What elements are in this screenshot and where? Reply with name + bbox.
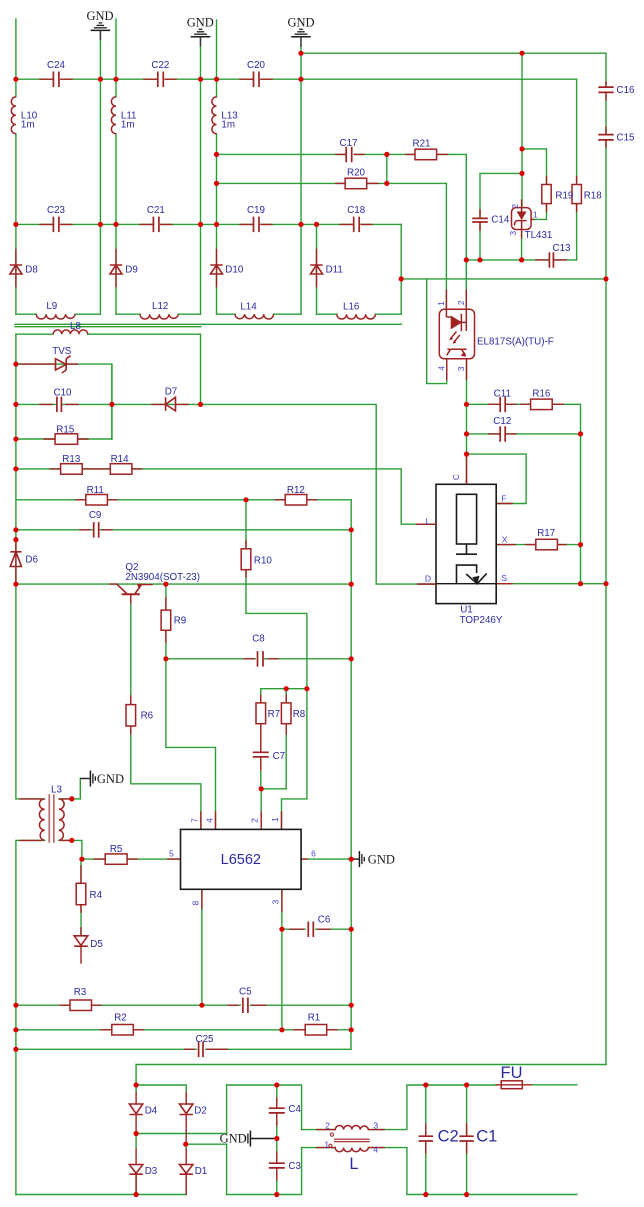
resistor R4	[76, 883, 86, 904]
capacitor C22	[158, 72, 164, 88]
svg-text:TVS: TVS	[52, 346, 72, 357]
diode D4	[129, 1104, 142, 1115]
wire R20 line	[217, 182, 447, 184]
leads C12	[489, 433, 516, 435]
TL431	[512, 208, 532, 230]
svg-text:D: D	[425, 574, 431, 584]
diode D6	[10, 552, 21, 567]
wire bottom rail left	[16, 1194, 186, 1196]
svg-text:4: 4	[436, 366, 446, 371]
wire F branch	[467, 454, 527, 503]
wire C11 line	[467, 403, 581, 405]
wire base line y584	[16, 583, 351, 585]
leads D11	[316, 249, 318, 286]
capacitor C11	[500, 397, 505, 413]
svg-text:C5: C5	[239, 986, 252, 997]
wire L9 rail	[16, 313, 101, 315]
svg-text:GND: GND	[187, 15, 214, 29]
svg-text:C20: C20	[247, 60, 266, 71]
svg-text:D5: D5	[90, 939, 103, 950]
node dots mid	[13, 362, 18, 367]
opto EL817	[439, 309, 474, 359]
wire Q2 base to R6	[131, 595, 201, 830]
red stubs over U1 edge reconnect	[417, 480, 467, 584]
leads C20	[240, 78, 272, 80]
ground GND3 top	[291, 29, 311, 46]
svg-text:C8: C8	[252, 633, 265, 644]
capacitor gaps (white)	[54, 79, 606, 1167]
svg-text:L14: L14	[240, 301, 257, 312]
resistor R15	[55, 434, 78, 445]
leads opto pins	[446, 290, 466, 380]
wire sec stub A	[15, 323, 402, 325]
svg-text:L: L	[349, 1155, 358, 1173]
wire R4-D5 col	[80, 859, 82, 936]
wire R16 vertical	[580, 404, 582, 583]
svg-text:FU: FU	[501, 1064, 523, 1082]
resistor R5	[105, 854, 127, 864]
leads C10	[40, 403, 78, 405]
capacitor C7	[253, 752, 269, 757]
svg-text:D2: D2	[194, 1106, 207, 1117]
svg-text:D10: D10	[225, 265, 244, 276]
capacitor C20	[254, 72, 260, 88]
wire pin2 stub	[260, 789, 262, 830]
wire C13 line	[466, 259, 576, 261]
capacitor C12	[500, 426, 505, 442]
svg-text:X: X	[502, 535, 508, 545]
leads Q2	[110, 584, 152, 603]
wire left col1 vertical	[15, 19, 17, 314]
svg-text:3: 3	[373, 1120, 378, 1130]
wire GND2 stem	[200, 46, 202, 314]
wire C1 col	[466, 1085, 468, 1195]
wire R10 path	[246, 500, 307, 830]
wire R7R8 rail	[261, 688, 307, 690]
wire cap bus y224	[16, 223, 401, 225]
resistor R3	[70, 1000, 92, 1011]
svg-text:S: S	[501, 573, 507, 583]
leads R10	[245, 541, 247, 577]
wire R3-C5 line	[16, 1004, 351, 1006]
capacitor C4	[269, 1108, 285, 1113]
resistor R2	[112, 1025, 134, 1036]
svg-text:C18: C18	[347, 205, 366, 216]
wire R21 to opto pin2	[465, 154, 467, 309]
leads TVS	[20, 363, 77, 365]
svg-text:R17: R17	[537, 528, 555, 539]
inductor L12	[140, 314, 178, 319]
svg-text:3: 3	[508, 231, 518, 236]
wire L3 right bottom	[59, 840, 82, 859]
capacitor C14	[472, 218, 488, 222]
capacitor C5	[243, 998, 248, 1014]
resistor R21	[415, 149, 437, 160]
svg-text:R20: R20	[347, 168, 366, 179]
leads R16	[521, 403, 563, 405]
svg-text:7: 7	[189, 818, 199, 823]
leads C13	[536, 259, 566, 261]
svg-text:L6562: L6562	[221, 852, 261, 868]
svg-text:GND: GND	[86, 9, 113, 23]
svg-text:L3: L3	[51, 785, 62, 796]
inductor L8	[53, 330, 87, 334]
leads C4	[276, 1098, 278, 1125]
svg-text:C7: C7	[273, 751, 286, 762]
leads C2	[425, 1124, 427, 1153]
svg-text:1: 1	[324, 1139, 329, 1149]
leads D9	[115, 249, 117, 286]
svg-text:C6: C6	[318, 914, 331, 925]
resistor R9	[161, 610, 171, 630]
node dots top	[298, 51, 303, 56]
svg-text:GND: GND	[368, 853, 395, 867]
resistor R13	[61, 464, 83, 475]
capacitor C2	[419, 1136, 433, 1141]
wire top bus y53	[301, 52, 606, 54]
svg-text:R12: R12	[287, 485, 305, 496]
svg-text:3: 3	[456, 366, 466, 371]
capacitor C3	[269, 1163, 285, 1168]
wire C14 branch	[480, 173, 522, 260]
svg-text:C17: C17	[340, 138, 358, 149]
svg-text:C4: C4	[288, 1104, 301, 1115]
wire ybox bottom	[227, 1148, 302, 1195]
transistor Q2	[117, 584, 141, 594]
leads TL431	[522, 200, 533, 238]
capacitor C16	[598, 87, 613, 92]
svg-text:1m: 1m	[21, 119, 35, 130]
wire C12 line	[467, 433, 581, 435]
wire pin8 stub	[201, 889, 203, 1005]
ground L6562 pin6	[351, 851, 364, 867]
svg-text:1: 1	[533, 210, 538, 220]
wire L8 line	[16, 334, 201, 404]
wire R18 vertical	[576, 79, 578, 260]
wire R13-R14 line to L pin	[16, 469, 436, 524]
diode D8	[10, 265, 22, 274]
wire cap bus y79	[16, 78, 577, 80]
wire left bottom vertical	[16, 840, 45, 1194]
diode D7	[166, 397, 176, 411]
diodes top columns	[10, 265, 323, 1174]
wire R2-R1 line	[16, 1029, 351, 1031]
capacitor C13	[549, 252, 553, 268]
leads C24	[40, 78, 72, 80]
leads U1 stubs	[417, 504, 516, 585]
ground GND2 top	[191, 29, 211, 46]
leads C14	[479, 210, 481, 230]
wire L14 rail	[217, 313, 302, 315]
wire C10-D7 line	[16, 404, 376, 584]
svg-text:D11: D11	[326, 265, 343, 276]
wire R11-R12 line	[16, 499, 351, 501]
svg-text:C2: C2	[438, 1128, 459, 1146]
diode D10	[210, 265, 222, 274]
wire left mid vertical	[16, 334, 45, 799]
wire TVS line	[16, 364, 112, 439]
svg-text:R1: R1	[308, 1012, 321, 1023]
svg-text:2: 2	[456, 300, 466, 305]
capacitor C23	[53, 217, 59, 233]
leads R18	[576, 177, 578, 212]
svg-text:TL431: TL431	[525, 230, 553, 241]
choke L bottom winding	[335, 1148, 368, 1152]
leads C7	[260, 757, 262, 770]
leads R21	[406, 153, 448, 155]
ground GND1 top	[91, 23, 111, 40]
leads C5	[228, 1004, 266, 1006]
wire R8 col	[285, 689, 287, 789]
leads C9	[80, 529, 112, 531]
leads D5	[80, 928, 82, 963]
resistor R10	[241, 549, 251, 570]
wire col2 left	[115, 19, 117, 314]
resistor R18	[572, 185, 581, 204]
wire D11 left	[316, 224, 318, 314]
svg-text:D9: D9	[125, 265, 138, 276]
svg-text:R5: R5	[110, 844, 123, 855]
diode D9	[110, 265, 122, 274]
svg-text:GND: GND	[287, 15, 314, 29]
svg-text:R10: R10	[254, 556, 273, 567]
svg-text:R19: R19	[555, 190, 573, 201]
wire L3 right top to GND	[59, 779, 80, 799]
leads D1	[185, 1149, 187, 1194]
leads C pin	[466, 454, 468, 484]
svg-text:R9: R9	[174, 616, 187, 627]
leads R9	[165, 598, 167, 642]
transformer L3 left winding	[39, 799, 44, 841]
svg-text:R21: R21	[413, 138, 431, 149]
svg-text:2N3904(SOT-23): 2N3904(SOT-23)	[125, 572, 200, 583]
leads R5	[94, 858, 137, 860]
wire C17-R21 line	[217, 153, 467, 155]
resistor R8	[281, 703, 291, 724]
wire bridge out2	[186, 1143, 227, 1145]
diode D3	[129, 1165, 142, 1175]
wire bridge out1	[136, 1133, 227, 1135]
svg-text:L8: L8	[70, 321, 81, 332]
svg-text:R14: R14	[111, 454, 130, 465]
IC U1 TOP246Y	[436, 484, 496, 603]
wire DC bus y1064	[136, 1064, 606, 1066]
wire GND3 stem	[300, 46, 302, 314]
svg-text:C23: C23	[47, 205, 66, 216]
svg-text:C9: C9	[89, 510, 102, 521]
leads C16 C15	[605, 82, 607, 147]
diode D11	[310, 265, 322, 274]
wire bridge cols	[136, 1085, 186, 1195]
wire R9 vertical	[166, 584, 216, 829]
leads R3	[60, 1004, 101, 1006]
leads D3	[135, 1149, 137, 1194]
leads R4	[80, 866, 82, 912]
svg-text:D8: D8	[25, 265, 38, 276]
wire X line	[496, 544, 580, 546]
ground mid-left (L3)	[80, 771, 95, 787]
leads R7	[260, 695, 262, 752]
svg-text:C11: C11	[494, 388, 511, 399]
wire C9 line	[16, 529, 351, 531]
wire C6 line	[282, 928, 351, 930]
svg-text:R18: R18	[584, 190, 603, 201]
svg-text:GND: GND	[97, 772, 124, 786]
wire choke bottom line	[302, 1148, 577, 1195]
wire L12 rail	[116, 313, 201, 315]
svg-text:C24: C24	[47, 60, 66, 71]
resistor R20	[345, 178, 367, 189]
leads choke	[317, 1130, 385, 1148]
svg-text:1: 1	[270, 817, 280, 822]
leads L6562 pins	[168, 812, 307, 911]
leads R15	[44, 438, 88, 440]
diode D2	[180, 1104, 193, 1115]
wire C pin stub	[466, 454, 468, 484]
leads L3	[20, 799, 72, 841]
wire feedback bus y279	[401, 278, 606, 280]
capacitor C24	[53, 72, 59, 88]
leads C1	[466, 1124, 468, 1153]
svg-text:R11: R11	[87, 485, 104, 496]
wire fuse right	[531, 1084, 577, 1086]
leads D10	[216, 249, 218, 286]
wire C2 col	[425, 1085, 427, 1195]
wire D11 right	[400, 224, 402, 314]
wire R5 line	[82, 858, 181, 860]
wire R12 corner vertical	[350, 500, 352, 1030]
fuse FU	[501, 1081, 522, 1089]
wire choke top line	[302, 1085, 497, 1130]
ground bottom (bridge)	[246, 1131, 277, 1147]
resistor R1	[305, 1025, 327, 1036]
leads R13 R14	[50, 468, 142, 470]
svg-text:U1: U1	[460, 605, 473, 616]
svg-text:1: 1	[436, 301, 446, 306]
capacitor C6	[308, 922, 313, 938]
leads D6	[15, 540, 17, 584]
leads C11	[489, 403, 516, 405]
wire TVS-C10 link	[111, 364, 113, 439]
resistor R12	[285, 495, 307, 506]
svg-text:L12: L12	[152, 301, 168, 312]
svg-text:C25: C25	[196, 1034, 215, 1045]
svg-text:TOP246Y: TOP246Y	[460, 615, 503, 626]
leads R6	[130, 696, 132, 734]
svg-text:5: 5	[169, 849, 174, 859]
svg-text:C19: C19	[247, 205, 265, 216]
wire ybox top	[227, 1085, 302, 1130]
wire R20 to opto pin1	[445, 183, 447, 309]
capacitor C17	[346, 147, 352, 163]
wire R19 branch	[522, 149, 547, 220]
leads R17	[526, 544, 566, 546]
wire S line	[496, 583, 606, 585]
svg-text:L16: L16	[343, 301, 360, 312]
svg-text:1m: 1m	[121, 119, 135, 130]
leads C8	[244, 658, 278, 660]
svg-text:C21: C21	[147, 205, 165, 216]
svg-text:R4: R4	[90, 890, 103, 901]
svg-text:C3: C3	[288, 1161, 301, 1172]
svg-text:L9: L9	[46, 301, 57, 312]
wire D pin	[376, 583, 436, 585]
inductor L16	[337, 314, 375, 319]
wire GND1 stem	[99, 40, 101, 314]
svg-text:C10: C10	[54, 388, 73, 399]
diode D1	[180, 1165, 193, 1175]
wire col3 left	[216, 20, 218, 314]
capacitor C18	[354, 217, 360, 233]
leads R2	[101, 1029, 143, 1031]
wire ybox left edges	[226, 1085, 228, 1195]
capacitor C15	[598, 135, 613, 140]
wire C4C3 col	[276, 1085, 278, 1195]
wire C17-R20 link	[386, 154, 388, 183]
svg-text:D6: D6	[25, 555, 38, 566]
resistors	[55, 149, 581, 1089]
svg-text:4: 4	[373, 1144, 378, 1154]
capacitor C21	[153, 217, 159, 233]
svg-text:R8: R8	[293, 709, 306, 720]
svg-text:R13: R13	[62, 454, 81, 465]
resistor R6	[126, 705, 136, 726]
svg-text:1m: 1m	[221, 119, 235, 130]
inductor L10	[11, 97, 16, 134]
svg-text:R16: R16	[532, 388, 551, 399]
svg-text:EL817S(A)(TU)-F: EL817S(A)(TU)-F	[477, 337, 554, 348]
capacitor C19	[254, 217, 260, 233]
svg-text:C: C	[451, 474, 461, 480]
IC L6562	[181, 829, 302, 889]
inductors	[11, 97, 375, 1152]
capacitor C1	[459, 1136, 473, 1141]
resistor R17	[536, 539, 558, 550]
wire TL431 cathode vertical	[521, 53, 523, 260]
leads D4	[135, 1093, 137, 1134]
svg-text:C16: C16	[617, 85, 636, 96]
diode D5	[74, 936, 88, 946]
resistor R19	[542, 185, 551, 204]
capacitor C25	[199, 1042, 203, 1058]
wire R7 col	[261, 689, 286, 789]
capacitor C10	[57, 397, 62, 413]
resistor R7	[256, 703, 266, 724]
leads C22	[144, 78, 176, 80]
wire sec stub B	[15, 326, 201, 328]
svg-text:R2: R2	[114, 1012, 127, 1023]
svg-text:R7: R7	[268, 709, 281, 720]
svg-text:R15: R15	[56, 425, 75, 436]
leads C17	[336, 153, 364, 155]
svg-text:2: 2	[510, 204, 520, 209]
wire right tall vertical x606	[605, 53, 607, 1064]
leads FU	[496, 1084, 530, 1086]
leads D8	[15, 249, 17, 286]
wire opto pin3 down	[466, 359, 468, 454]
svg-text:C1: C1	[476, 1128, 497, 1146]
wire pin3 stub	[281, 889, 283, 1030]
leads R8	[285, 695, 287, 734]
leads D2	[185, 1093, 187, 1145]
svg-text:4: 4	[204, 818, 214, 823]
leads R19	[546, 177, 548, 212]
resistor R16	[531, 399, 553, 410]
leads R11	[76, 499, 117, 501]
svg-text:C14: C14	[491, 215, 510, 226]
wire C8 line	[166, 658, 351, 660]
svg-text:R6: R6	[141, 711, 154, 722]
